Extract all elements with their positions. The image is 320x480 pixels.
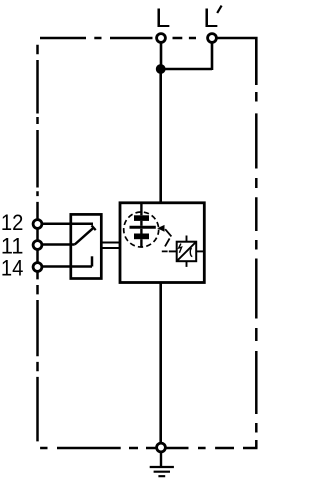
enclosure border, top side between L and L'	[173, 37, 197, 40]
fixed contact 14 (bent leg)	[91, 256, 94, 266]
disconnect dashed action line	[162, 229, 172, 251]
junction node	[156, 64, 166, 74]
thermal disconnector dashed circle	[124, 212, 159, 247]
enclosure border (dash-dot outline), top side left of terminal L	[40, 37, 153, 40]
earth terminal	[157, 443, 166, 452]
spark gap bottom stub	[186, 261, 188, 267]
disconnector bottom lead	[140, 239, 142, 247]
spark gap right lead	[196, 250, 204, 252]
earth lead	[160, 452, 162, 466]
spark gap / SPD element square	[177, 242, 197, 262]
SPD module box	[120, 203, 204, 283]
svg-text:L: L	[203, 3, 218, 33]
wire from terminal L' to top-right corner and down	[212, 37, 256, 85]
disconnector top lead	[140, 203, 142, 215]
spark gap / SPD element left lead	[169, 250, 177, 252]
enclosure border, bottom side	[40, 447, 257, 450]
svg-text:14: 14	[1, 255, 24, 280]
wire terminal 11 to switch pivot	[38, 243, 75, 246]
spark gap diagonal	[177, 242, 195, 260]
changeover contact lever (11 to 12)	[75, 228, 94, 245]
moving contact tip tick	[92, 225, 96, 230]
terminal 14	[33, 263, 42, 272]
prime mark	[217, 6, 221, 13]
svg-text:L: L	[155, 3, 170, 33]
disconnector top bar	[134, 215, 149, 221]
disconnector bottom bar	[134, 234, 149, 240]
spark gap top stub	[186, 236, 188, 242]
wire terminal 14 to contact	[38, 265, 93, 268]
terminal L'	[208, 34, 217, 43]
terminal L	[157, 34, 166, 43]
wire terminal 12 to contact	[38, 223, 94, 226]
wire from terminal L down to junction	[160, 38, 163, 69]
mechanical linkage (double line)	[103, 243, 121, 249]
spark gap lightning glyph	[179, 244, 182, 253]
terminal 11	[33, 241, 42, 250]
main wire from junction down to SPD box	[159, 69, 162, 203]
enclosure border, right side (below wire from L')	[255, 92, 258, 448]
wire rising from junction branch to terminal L'	[211, 38, 214, 70]
disconnector middle stub lower	[140, 229, 142, 234]
wire from earth terminal to the right	[161, 447, 189, 450]
svg-text:12: 12	[1, 210, 24, 235]
terminal 12	[33, 220, 42, 229]
wire from junction to below terminal L'	[161, 68, 212, 71]
enclosure border, left side	[36, 45, 39, 442]
wire from SPD box down to earth terminal	[159, 283, 162, 448]
spark gap hook glyph	[190, 248, 192, 256]
disconnect arrow head	[157, 225, 164, 232]
disconnector middle stub upper	[140, 221, 142, 226]
ground symbol	[150, 467, 174, 476]
disconnector middle bar	[130, 226, 156, 229]
remote signalling switch box	[71, 214, 102, 278]
